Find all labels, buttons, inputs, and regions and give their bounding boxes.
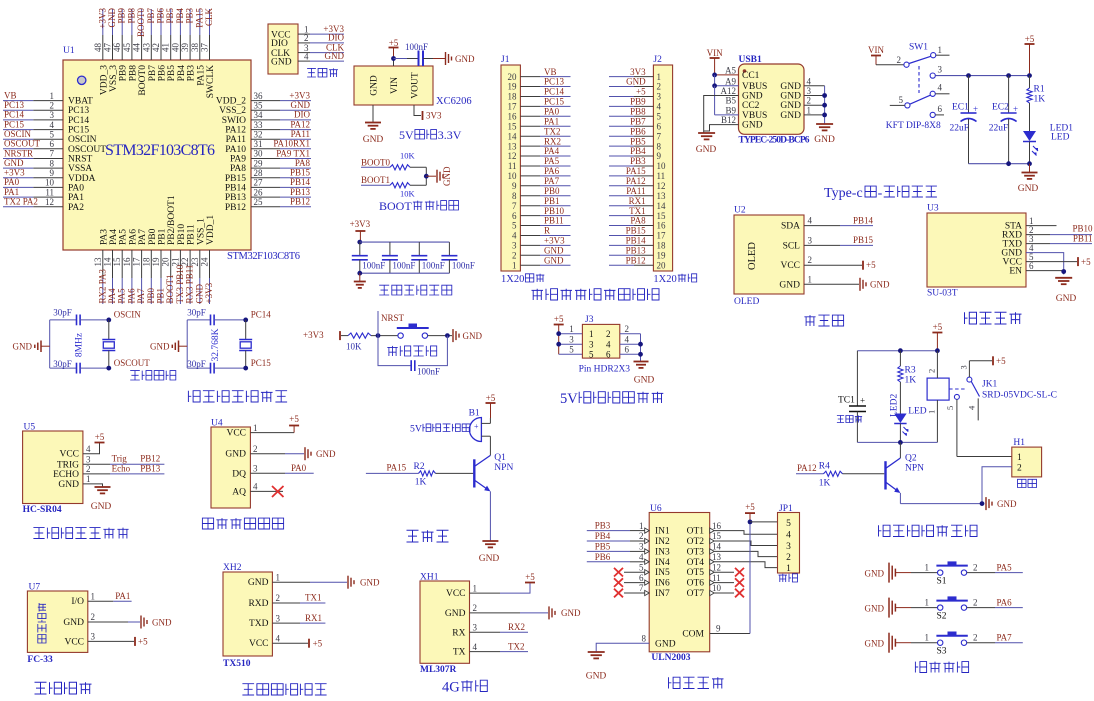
svg-text:PC13: PC13 xyxy=(68,106,89,116)
module U6 body xyxy=(649,513,710,652)
junction (J3 right 1) xyxy=(638,342,643,347)
capacitor C2 100nF lead top xyxy=(389,242,391,256)
U1 pin 33 wire xyxy=(251,129,280,131)
XH1 GND wire xyxy=(470,612,521,614)
svg-text:5: 5 xyxy=(639,562,644,572)
junction (usb gnd 3) xyxy=(822,113,827,118)
svg-text:18: 18 xyxy=(141,257,151,267)
svg-text:EC1: EC1 xyxy=(952,103,969,113)
svg-text:2: 2 xyxy=(86,464,91,474)
capacitor TC1 lead2 xyxy=(856,412,858,443)
wire junction vertical xyxy=(425,167,427,185)
junction (reset right) xyxy=(445,333,450,338)
svg-text:GND: GND xyxy=(780,111,801,121)
U1 pin 41 wire xyxy=(170,35,172,60)
caption 超声波测距模块 xyxy=(33,528,128,539)
capacitor EC2 lead xyxy=(1008,76,1010,113)
J1 pin 7 wire xyxy=(520,205,540,207)
wire Q2 collector xyxy=(899,442,901,458)
svg-text:GND: GND xyxy=(780,82,801,92)
capacitor C2 lead bottom xyxy=(389,260,391,273)
U6 IN5 wire xyxy=(624,571,645,573)
svg-text:SRD-05VDC-SL-C: SRD-05VDC-SL-C xyxy=(982,391,1057,401)
svg-text:46: 46 xyxy=(112,43,122,53)
svg-text:OSCIN: OSCIN xyxy=(114,309,142,319)
header J2 body xyxy=(653,65,672,271)
capacitor C3 100nF xyxy=(411,255,427,257)
resistor 10K (reset) xyxy=(348,333,371,338)
svg-text:GND: GND xyxy=(626,77,646,87)
relay coil lead bottom xyxy=(936,400,938,442)
header J1 body xyxy=(501,65,520,271)
svg-text:TXD: TXD xyxy=(249,619,269,629)
svg-text:PB15: PB15 xyxy=(853,235,874,245)
svg-text:R: R xyxy=(544,226,550,236)
junction top xyxy=(243,318,248,323)
svg-text:SWIO: SWIO xyxy=(222,116,246,126)
svg-text:GND: GND xyxy=(455,54,475,64)
svg-text:PB12: PB12 xyxy=(140,454,160,464)
wire top cap left xyxy=(187,319,210,321)
svg-text:XH1: XH1 xyxy=(420,573,439,583)
U5 GND wire xyxy=(83,484,103,487)
U1 pin 27 wire xyxy=(251,186,280,188)
download port pin 4 wire xyxy=(298,60,310,62)
svg-text:A12: A12 xyxy=(721,86,737,96)
svg-text:VCC: VCC xyxy=(226,429,246,439)
svg-text:3: 3 xyxy=(589,340,594,350)
U6 COM wire xyxy=(710,633,750,635)
svg-text:DIO: DIO xyxy=(271,39,288,49)
svg-text:NRST: NRST xyxy=(68,155,92,165)
U1 pin 25 wire xyxy=(251,206,280,208)
svg-text:A9: A9 xyxy=(725,76,736,86)
svg-text:PA4: PA4 xyxy=(109,229,119,245)
svg-text:30: 30 xyxy=(254,149,264,159)
ground (J3) xyxy=(634,361,649,363)
svg-text:19: 19 xyxy=(151,257,161,267)
svg-text:1: 1 xyxy=(927,410,937,414)
ground port (BOOT) xyxy=(436,170,438,183)
svg-text:+5: +5 xyxy=(933,322,943,332)
svg-text:R4: R4 xyxy=(819,462,830,472)
svg-text:TX3 PB10: TX3 PB10 xyxy=(175,264,185,303)
capacitor C1 100nF lead top xyxy=(359,242,361,256)
svg-text:OT2: OT2 xyxy=(687,537,705,547)
U6 GND wire xyxy=(596,643,649,652)
svg-text:23: 23 xyxy=(190,257,200,267)
svg-text:SWCLK: SWCLK xyxy=(206,65,216,98)
svg-text:PB6: PB6 xyxy=(156,8,166,24)
junction (relay top coil) xyxy=(935,348,940,353)
svg-text:7: 7 xyxy=(512,201,517,211)
svg-text:4: 4 xyxy=(639,552,644,562)
wire S3 gnd stub xyxy=(895,642,911,644)
svg-text:14: 14 xyxy=(657,201,667,211)
wire GND A12 xyxy=(704,96,739,134)
junction (VIN node) xyxy=(391,56,396,61)
svg-text:PB14: PB14 xyxy=(225,183,246,193)
U6 IN2 arrow xyxy=(645,538,650,543)
U3 VCC wire xyxy=(1026,261,1077,263)
crystal lead top xyxy=(245,320,247,340)
svg-text:4: 4 xyxy=(625,334,630,344)
svg-text:IN7: IN7 xyxy=(655,589,670,599)
svg-text:17: 17 xyxy=(657,231,667,241)
U5 VCC wire xyxy=(83,443,100,454)
svg-text:8: 8 xyxy=(657,141,662,151)
capacitor EC2 plates xyxy=(1001,112,1017,114)
svg-text:2: 2 xyxy=(973,562,978,572)
junction (U6 +5) xyxy=(748,520,753,525)
svg-text:PB1: PB1 xyxy=(158,228,168,245)
svg-text:PA0: PA0 xyxy=(291,463,307,473)
svg-text:27: 27 xyxy=(254,178,264,188)
resistor R2 xyxy=(419,471,436,476)
svg-text:PA0: PA0 xyxy=(68,183,84,193)
U1 pin 36 wire xyxy=(251,100,280,102)
switch SW1 blade upper xyxy=(909,56,931,63)
svg-text:PC14: PC14 xyxy=(544,87,565,97)
U1 pin 20 wire xyxy=(170,250,172,278)
svg-text:SU-03T: SU-03T xyxy=(927,289,958,299)
svg-text:BOOT: BOOT xyxy=(379,199,412,213)
svg-text:5: 5 xyxy=(899,95,904,105)
svg-text:11: 11 xyxy=(45,187,54,197)
svg-text:PB3: PB3 xyxy=(187,65,197,82)
svg-text:16: 16 xyxy=(508,112,518,122)
svg-text:13: 13 xyxy=(508,141,518,151)
svg-text:40: 40 xyxy=(170,43,180,53)
svg-text:PB14: PB14 xyxy=(626,236,647,246)
svg-text:PC15: PC15 xyxy=(4,119,25,129)
svg-text:PA1: PA1 xyxy=(68,193,84,203)
svg-text:IN1: IN1 xyxy=(655,527,670,537)
J1 pin 9 wire xyxy=(520,185,540,187)
ground (U6) xyxy=(588,651,605,653)
svg-text:3: 3 xyxy=(512,241,517,251)
svg-text:PB6: PB6 xyxy=(595,552,611,562)
svg-text:4: 4 xyxy=(86,444,91,454)
svg-text:PA8: PA8 xyxy=(295,158,311,168)
connector USB1 body xyxy=(739,64,805,134)
ground (power circuit) xyxy=(1022,172,1038,174)
svg-text:XC6206: XC6206 xyxy=(436,96,472,107)
svg-text:JK1: JK1 xyxy=(982,380,998,390)
svg-text:PA7: PA7 xyxy=(138,229,148,245)
LED1 arrows xyxy=(1032,146,1038,156)
svg-text:VDDA: VDDA xyxy=(68,174,96,184)
svg-text:NRSTR: NRSTR xyxy=(4,148,33,158)
U6 IN4 wire xyxy=(587,561,630,563)
U6 OT6 wire xyxy=(714,582,734,584)
svg-text:HC-SR04: HC-SR04 xyxy=(23,505,62,515)
U1 pin 19 wire xyxy=(160,250,162,278)
svg-text:5: 5 xyxy=(589,350,594,360)
svg-text:PB3: PB3 xyxy=(630,156,646,166)
svg-text:PA5: PA5 xyxy=(117,288,127,304)
svg-text:STM32F103C8T6: STM32F103C8T6 xyxy=(105,142,215,159)
U6 IN5 arrow xyxy=(645,570,650,575)
caption 芯片滤波电容 xyxy=(379,285,452,295)
U1 pin 9 wire xyxy=(3,177,33,179)
svg-text:PB0: PB0 xyxy=(146,287,156,303)
svg-text:J2: J2 xyxy=(653,55,662,65)
svg-text:4: 4 xyxy=(276,633,281,643)
svg-text:RX2 PA3: RX2 PA3 xyxy=(97,269,107,304)
caption 4G模块 xyxy=(442,680,487,696)
no-connect X (OT6) xyxy=(735,578,744,587)
svg-text:CLK: CLK xyxy=(204,7,214,26)
svg-text:12: 12 xyxy=(657,181,666,191)
svg-text:2: 2 xyxy=(606,329,611,339)
svg-text:GND: GND xyxy=(316,449,336,459)
svg-text:PB11: PB11 xyxy=(544,216,564,226)
resistor 10K (BOOT1) xyxy=(390,183,410,188)
J2 pin 8 wire xyxy=(634,145,653,147)
LED2 arrows xyxy=(903,427,909,436)
svg-text:RX1: RX1 xyxy=(305,613,322,623)
wire H1 pin2 xyxy=(982,467,1012,504)
header JP1 body xyxy=(778,513,800,574)
U6 OT2 arrow xyxy=(710,538,715,543)
J1 pin 8 wire xyxy=(520,195,540,197)
svg-text:PB7: PB7 xyxy=(148,65,158,82)
capacitor 100nF (input) xyxy=(418,51,420,67)
wire crystal rail xyxy=(49,320,51,368)
relay link dashed xyxy=(949,388,967,390)
svg-text:B12: B12 xyxy=(721,115,736,125)
svg-text:PA2: PA2 xyxy=(68,203,84,213)
svg-text:U5: U5 xyxy=(24,423,36,433)
svg-text:VOUT: VOUT xyxy=(411,72,421,99)
wire J3 right rail xyxy=(640,334,642,361)
svg-text:VCC: VCC xyxy=(780,261,800,271)
svg-text:1: 1 xyxy=(1017,453,1022,463)
capacitor C1 100nF xyxy=(352,255,368,257)
svg-text:19: 19 xyxy=(657,251,667,261)
wire S1 left xyxy=(911,572,938,574)
svg-text:PB12: PB12 xyxy=(225,203,246,213)
svg-text:3V3: 3V3 xyxy=(630,67,646,77)
svg-text:1K: 1K xyxy=(905,376,917,386)
svg-text:3.3V: 3.3V xyxy=(438,128,462,142)
svg-text:39: 39 xyxy=(180,43,190,53)
svg-text:OT6: OT6 xyxy=(687,579,705,589)
svg-text:2: 2 xyxy=(786,553,791,563)
junction (usb gnd 1) xyxy=(822,93,827,98)
svg-text:U7: U7 xyxy=(29,583,41,593)
svg-text:28: 28 xyxy=(254,168,264,178)
wire to nrst junction xyxy=(371,335,400,337)
caption 接口 (H1) xyxy=(1018,479,1037,487)
svg-text:15: 15 xyxy=(112,257,122,267)
svg-text:A5: A5 xyxy=(725,65,736,75)
ground (regulator) xyxy=(365,122,381,124)
U4 AQ wire xyxy=(250,490,283,492)
LED LED1 xyxy=(1023,131,1036,141)
svg-text:16: 16 xyxy=(122,257,132,267)
J1 pin 13 wire xyxy=(520,145,540,147)
resistor R3 xyxy=(899,351,901,366)
U1 pin 23 wire xyxy=(199,250,201,278)
caption 继电器控制输出 xyxy=(879,525,978,536)
ground port (U2) xyxy=(859,278,861,291)
svg-text:PB5: PB5 xyxy=(165,8,175,24)
svg-text:5: 5 xyxy=(50,129,55,139)
U4 GND wire xyxy=(250,453,285,455)
svg-text:9: 9 xyxy=(50,168,55,178)
svg-text:10K: 10K xyxy=(400,151,416,161)
svg-text:16: 16 xyxy=(712,521,722,531)
svg-text:GND: GND xyxy=(152,617,172,627)
wire relay pin3 xyxy=(968,361,970,377)
svg-text:GND: GND xyxy=(1018,184,1039,194)
caption 5V有源蜂鸣器 xyxy=(410,424,470,435)
svg-text:PB14: PB14 xyxy=(853,215,874,225)
svg-text:2: 2 xyxy=(973,597,978,607)
caption 复位电路 xyxy=(387,346,436,356)
capacitor EC1 lead xyxy=(968,76,970,113)
U1 pin 7 wire xyxy=(3,158,33,160)
svg-text:4: 4 xyxy=(512,231,517,241)
switch SW1 pin4 contact xyxy=(930,91,935,96)
svg-text:2: 2 xyxy=(897,55,902,65)
svg-text:8MHz: 8MHz xyxy=(74,333,84,357)
capacitor TC1 xyxy=(849,405,866,407)
ground port (reset) xyxy=(452,329,454,342)
svg-text:PA8: PA8 xyxy=(630,216,646,226)
svg-text:1: 1 xyxy=(925,597,930,607)
svg-text:+3V3: +3V3 xyxy=(97,8,107,29)
svg-text:IN6: IN6 xyxy=(655,579,670,589)
caption 下载口 xyxy=(307,68,338,77)
wire to ground (power) xyxy=(1029,164,1031,173)
wire to gnd xyxy=(426,175,436,177)
USB1 right pin wire 2 xyxy=(804,104,825,106)
svg-text:5: 5 xyxy=(786,519,791,529)
svg-text:IN3: IN3 xyxy=(655,547,670,557)
wire +5 to JP1 pin5 xyxy=(750,521,778,523)
svg-text:+: + xyxy=(860,396,865,406)
junction (filter top) xyxy=(357,240,362,245)
svg-text:6: 6 xyxy=(606,350,611,360)
junction bottom xyxy=(106,366,111,371)
svg-text:PB1: PB1 xyxy=(156,288,166,304)
svg-text:PA12: PA12 xyxy=(225,126,246,136)
svg-text:1: 1 xyxy=(786,564,791,574)
svg-text:I/O: I/O xyxy=(71,597,84,607)
svg-text:10K: 10K xyxy=(400,189,416,199)
U6 IN3 arrow xyxy=(645,549,650,554)
svg-text:PB15: PB15 xyxy=(225,174,246,184)
svg-text:7: 7 xyxy=(657,131,662,141)
USB1 right pin wire 4 xyxy=(804,85,825,87)
svg-text:PB5: PB5 xyxy=(167,65,177,82)
ground (buzzer) xyxy=(482,540,498,542)
svg-text:15: 15 xyxy=(508,121,518,131)
svg-text:3: 3 xyxy=(786,542,791,552)
U1 pin 8 wire xyxy=(3,167,33,169)
no-connect X (U4 AQ) xyxy=(272,486,284,497)
junction (J3 3) xyxy=(556,342,561,347)
svg-text:PA1: PA1 xyxy=(115,591,130,601)
svg-text:3: 3 xyxy=(657,92,662,102)
J2 pin 12 wire xyxy=(634,185,653,187)
U1 pin 21 wire xyxy=(179,250,181,278)
crystal lead bottom xyxy=(108,351,110,369)
svg-text:IN4: IN4 xyxy=(655,558,670,568)
svg-text:+5: +5 xyxy=(996,356,1006,366)
U1 pin 2 wire xyxy=(3,109,33,111)
power +5 (U7) xyxy=(134,637,136,646)
switch SW1 pin2 contact xyxy=(904,62,909,67)
svg-text:1K: 1K xyxy=(415,478,427,488)
capacitor EC1 lead2 xyxy=(968,119,970,164)
capacitor 30pF bottom xyxy=(210,363,212,374)
svg-text:+5: +5 xyxy=(389,38,399,48)
svg-text:+: + xyxy=(1013,104,1018,114)
U1 pin 28 wire xyxy=(251,177,280,179)
svg-text:GND: GND xyxy=(445,609,466,619)
svg-text:DQ: DQ xyxy=(232,469,246,479)
wire reset cap loop xyxy=(378,336,411,366)
crystal lead bottom xyxy=(245,351,247,369)
J1 pin 17 wire xyxy=(520,105,540,107)
caption 红外对管 xyxy=(35,682,92,694)
ground port (crystal) xyxy=(178,341,180,353)
svg-text:9: 9 xyxy=(657,151,662,161)
svg-text:1X20: 1X20 xyxy=(653,274,676,285)
svg-text:NRST: NRST xyxy=(381,313,405,323)
U6 IN1 arrow xyxy=(645,528,650,533)
svg-text:PA8: PA8 xyxy=(230,164,246,174)
svg-text:GND: GND xyxy=(370,75,380,96)
svg-text:TRIG: TRIG xyxy=(57,460,79,470)
J1 pin 10 wire xyxy=(520,175,540,177)
svg-text:GND: GND xyxy=(150,342,170,352)
svg-text:U3: U3 xyxy=(927,204,939,214)
svg-text:9: 9 xyxy=(716,624,721,634)
wire gnd stub xyxy=(179,345,188,347)
junction (usb gnd 2) xyxy=(822,103,827,108)
wire button to gnd xyxy=(428,335,452,337)
wire filter top rail xyxy=(360,241,450,243)
wire usb right vertical xyxy=(824,86,826,124)
svg-text:4: 4 xyxy=(786,531,791,541)
svg-text:+5: +5 xyxy=(1081,257,1091,267)
wire VBUS B9 xyxy=(714,86,716,115)
USB1 right pin wire 1 xyxy=(804,114,825,116)
svg-text:LED: LED xyxy=(908,407,927,417)
svg-text:2: 2 xyxy=(50,100,55,110)
svg-text:PA6: PA6 xyxy=(126,288,136,304)
caption 人脸识别模块 xyxy=(242,684,326,695)
svg-text:6: 6 xyxy=(512,211,517,221)
svg-text:PA0: PA0 xyxy=(544,107,560,117)
XH1 TX wire xyxy=(470,651,501,653)
svg-text:26: 26 xyxy=(254,187,264,197)
header J3 body xyxy=(582,324,619,358)
svg-text:R1: R1 xyxy=(1034,85,1045,95)
svg-text:GND: GND xyxy=(742,92,763,102)
relay contact common xyxy=(967,377,972,382)
svg-text:PA11: PA11 xyxy=(291,129,310,139)
svg-text:PA1: PA1 xyxy=(544,116,559,126)
junction (VIN A9) xyxy=(712,83,717,88)
U1 pin 22 wire xyxy=(189,250,191,278)
svg-text:RX1: RX1 xyxy=(629,196,646,206)
